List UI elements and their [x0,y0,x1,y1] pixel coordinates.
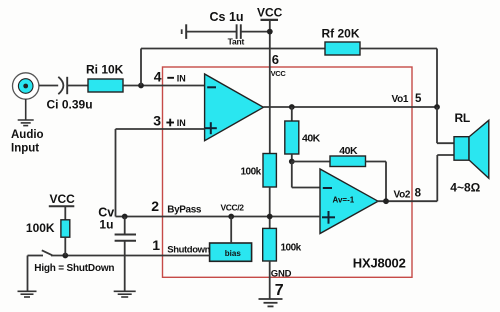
wire to 40K vertical [291,107,293,121]
svg-text:IN: IN [177,118,186,128]
svg-text:1: 1 [152,237,160,253]
node VCC/2 [267,214,273,220]
capacitor Cs plate a [236,24,238,39]
wire Vo1 output [263,106,437,108]
resistor 100k upper (divider) [263,154,276,188]
svg-text:bias: bias [225,249,242,258]
svg-text:Cs 1u: Cs 1u [210,10,244,24]
wire +IN horizontal [116,128,205,130]
speaker RL cone [469,120,489,178]
node inverting net [289,159,295,165]
svg-text:7: 7 [275,282,284,299]
svg-text:Rf 20K: Rf 20K [322,27,360,41]
resistor 40K vertical [285,121,299,154]
svg-text:Vo1: Vo1 [392,94,409,105]
capacitor Ci curved plate [58,77,63,94]
op-amp U1A [205,74,264,141]
wire node down to op2 minus [291,162,293,188]
svg-text:4: 4 [154,69,162,85]
svg-text:4~8Ω: 4~8Ω [450,181,480,195]
svg-text:VCC/2: VCC/2 [221,203,245,213]
ground (switch) [18,291,37,297]
switch SW1 lever [42,250,53,255]
connector J1 center pin [23,84,28,89]
wire switch left [28,255,44,257]
resistor 40K horizontal [330,156,366,167]
wire to op2 minus input [292,187,320,189]
resistor Ri [88,79,123,92]
wire 40K bottom to node [291,154,293,162]
op-amp U1A minus [207,86,216,88]
svg-text:100k: 100k [241,167,262,178]
wire down to Vo2 node [385,162,387,202]
resistor 100K pullup [61,220,70,237]
svg-text:Audio: Audio [11,129,44,141]
wire Ci to Ri [68,85,88,87]
op-amp U1B plus [322,211,335,224]
svg-text:6: 6 [272,52,279,67]
wire Cs to VCC node [242,31,270,33]
node bias tap [228,214,234,220]
svg-text:RL: RL [455,111,470,125]
svg-text:40K: 40K [339,145,358,157]
svg-text:IN: IN [177,73,186,83]
svg-text:1u: 1u [99,218,113,232]
svg-text:ByPass: ByPass [167,205,202,216]
op-amp U1B minus [323,187,332,189]
op-amp U1A plus [205,122,217,134]
svg-text:Tant: Tant [228,37,245,47]
wire +IN down to bypass line [115,129,117,217]
svg-text:GND: GND [271,268,292,279]
svg-text:Av=-1: Av=-1 [333,196,355,205]
speaker RL body [454,137,469,161]
wire feedback top left segment [141,48,325,50]
capacitor Cs plate b [240,24,242,39]
wire feedback top right segment [360,48,437,50]
capacitor Cv plate top [115,234,136,236]
node shutdown [62,253,68,259]
wire 100K to node [64,237,66,255]
ground (Cv) [114,291,136,297]
wire Vo2 output [377,200,437,202]
wire divider mid [269,187,271,228]
IC boundary HXJ8002 (red box) [163,67,413,277]
svg-text:Ci 0.39u: Ci 0.39u [47,98,93,112]
node at Ri output [138,83,144,89]
svg-text:Shutdown: Shutdown [167,245,210,256]
resistor 100k lower (divider) [263,228,277,261]
node Vo2 [383,198,389,204]
node Vo1 [434,104,440,110]
svg-text:VCC: VCC [50,192,76,206]
wire Cs left to right plates [187,31,236,33]
wire VCC rail down to 100k divider [269,20,271,154]
wire bypass/VCC2 rail [116,216,321,218]
wire to GND pin 7 [269,261,271,299]
wire Vo2 to speaker bottom [436,155,438,201]
svg-text:Ri 10K: Ri 10K [86,62,124,76]
resistor Rf [325,42,360,55]
node Cv tap [122,214,128,220]
wire node to 40K horizontal [292,161,330,163]
svg-text:High = ShutDown: High = ShutDown [34,263,114,274]
wire Vo1 to speaker top [436,107,438,143]
svg-text:40K: 40K [302,132,321,144]
connector J1 audio input outer [13,73,39,99]
node VCC / Cs [267,29,273,35]
wire VCC to 100K [64,206,66,220]
wire Cv to ground [124,242,126,291]
connector J1 inner contact [18,79,33,94]
capacitor Cs negative stub [181,29,183,34]
label -IN [167,77,174,79]
wire node up to feedback line [140,49,142,86]
wire Ri to pin4 [123,85,205,87]
node 40K tap [289,104,295,110]
svg-text:HXJ8002: HXJ8002 [353,256,406,271]
wire shutdown to bias [51,255,210,257]
capacitor Ci straight plate [66,77,68,94]
svg-text:100k: 100k [281,243,302,254]
op-amp U1B Av=-1 [320,169,378,234]
svg-text:8: 8 [415,188,422,200]
capacitor Cv top wire [124,217,126,234]
svg-text:Input: Input [11,142,39,154]
svg-text:100K: 100K [26,221,55,235]
svg-text:VCC: VCC [257,6,283,20]
svg-text:5: 5 [415,93,422,105]
label +IN [166,119,174,127]
bias block [210,243,252,261]
ground (audio input) [18,99,34,126]
wire VCC/2 to bias [230,217,232,244]
wire 40K to Vo2 vertical [366,161,387,163]
svg-text:VCC: VCC [271,69,287,78]
svg-text:3: 3 [153,113,161,129]
capacitor Cv plate bottom [115,240,136,242]
ground (pin 7) [259,299,283,306]
svg-text:2: 2 [151,198,159,214]
capacitor Cs left plate [185,24,187,39]
wire switch to ground [27,256,29,291]
svg-text:Vo2: Vo2 [394,189,411,200]
wire feedback down to Vo1 [436,49,438,108]
wire connector to Ci [39,85,58,87]
